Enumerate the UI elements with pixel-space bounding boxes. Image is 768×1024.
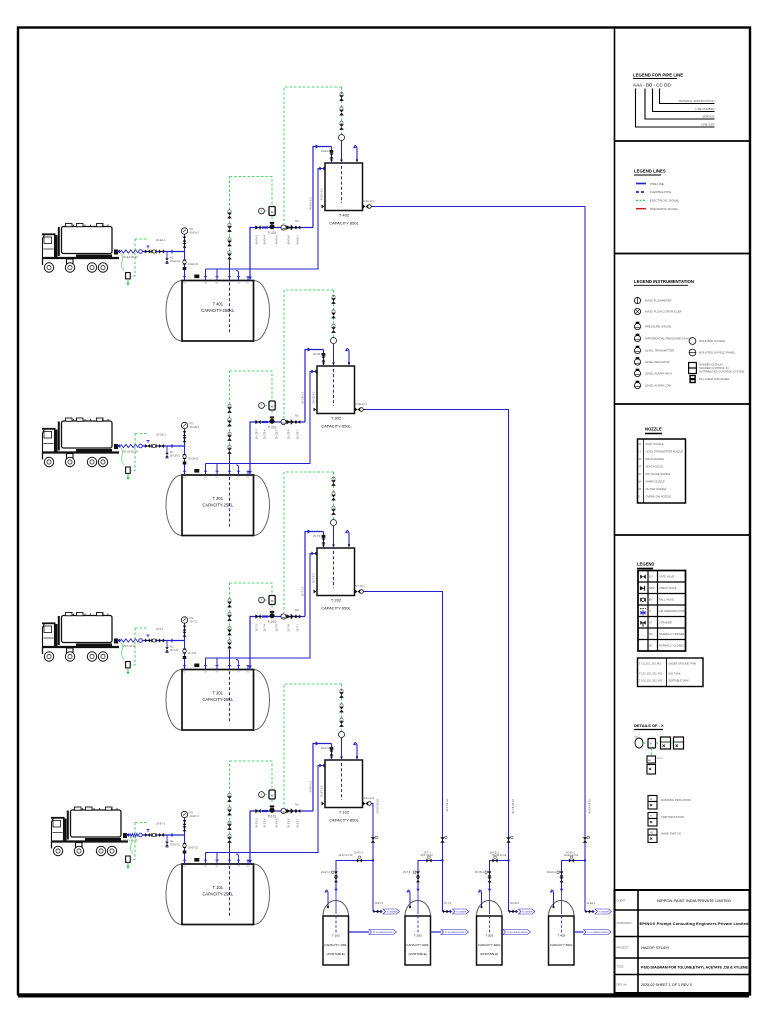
- svg-text:20-EY-6: 20-EY-6: [287, 818, 291, 828]
- svg-text:TO FLUSHING MIXING: TO FLUSHING MIXING: [373, 932, 395, 934]
- indication symbols: [648, 796, 691, 843]
- svg-text:CLIENT: CLIENT: [617, 900, 626, 903]
- svg-text:40-EA-4: 40-EA-4: [587, 902, 596, 905]
- svg-text:GV: GV: [649, 576, 653, 579]
- svg-text:20-EY-01: 20-EY-01: [170, 844, 181, 847]
- svg-text:BALL VALVE: BALL VALVE: [659, 598, 674, 602]
- earthing connection (green) unit 4: [126, 823, 148, 870]
- svg-text:25-T-9 2: 25-T-9 2: [312, 573, 316, 583]
- tank numbering table: [638, 658, 704, 687]
- svg-text:DIFFERENTIAL PRESSURE GAUGE: DIFFERENTIAL PRESSURE GAUGE: [645, 337, 692, 341]
- flexible hose from truck (40-EA-00): [117, 250, 142, 259]
- svg-text:T 203: T 203: [414, 934, 422, 938]
- portable tank T 103: [323, 890, 349, 965]
- svg-text:MASS FLOW CONTROLLER: MASS FLOW CONTROLLER: [645, 310, 682, 314]
- svg-text:MOUNTED IN FIELD PANEL: MOUNTED IN FIELD PANEL: [699, 351, 736, 355]
- svg-text:CAPACITY-250KL: CAPACITY-250KL: [201, 308, 235, 313]
- nozzle table section: [638, 427, 686, 504]
- svg-text:20-EY-2: 20-EY-2: [190, 814, 200, 818]
- svg-text:40-EA-3: 40-EA-3: [255, 234, 259, 244]
- svg-text:30-CB-9 2: 30-CB-9 2: [312, 391, 316, 403]
- svg-text:DISTRIBUTED CONTROL SYSTEM: DISTRIBUTED CONTROL SYSTEM: [699, 370, 745, 374]
- earthing connection (green) unit 3: [121, 628, 148, 675]
- electrical signal to flowmeter (green) unit 2: [284, 290, 334, 419]
- svg-text:O: O: [638, 495, 640, 498]
- svg-text:40-EA-4: 40-EA-4: [547, 871, 557, 874]
- tanker truck unit 4: [51, 807, 128, 856]
- svg-text:25-T-1: 25-T-1: [424, 852, 432, 855]
- svg-text:30-CB-5: 30-CB-5: [275, 429, 279, 439]
- svg-text:CAPACITY-25KL: CAPACITY-25KL: [202, 503, 233, 508]
- svg-text:P-201: P-201: [268, 620, 277, 624]
- svg-text:20-EY-5 2: 20-EY-5 2: [309, 780, 313, 792]
- flexible hose from truck (30-CB-00): [117, 444, 142, 453]
- svg-text:30-CB-6: 30-CB-6: [287, 429, 291, 439]
- svg-text:25-T-6 1: 25-T-6 1: [313, 535, 323, 538]
- svg-text:TO MIXER: TO MIXER: [386, 912, 397, 914]
- svg-text:MATERIAL SPECIFICATION: MATERIAL SPECIFICATION: [679, 99, 715, 103]
- svg-text:DAY TANK: DAY TANK: [669, 673, 681, 676]
- svg-text:TO MIXER: TO MIXER: [598, 912, 609, 914]
- svg-text:T 103, 203, 303, 403: T 103, 203, 303, 403: [639, 680, 663, 683]
- svg-text:30-CB-2: 30-CB-2: [190, 425, 200, 429]
- svg-text:RI: RI: [650, 799, 653, 801]
- vent valve column above T 202: [331, 472, 337, 545]
- svg-text:25-T-00 00: 25-T-00 00: [123, 644, 136, 648]
- svg-text:PROJECT: PROJECT: [617, 947, 629, 950]
- pump P-201 transfer line: [248, 609, 305, 670]
- svg-text:CAPACITY-600L: CAPACITY-600L: [478, 943, 501, 947]
- svg-text:2025-02 SHEET 1 OF 1 REV 0: 2025-02 SHEET 1 OF 1 REV 0: [641, 983, 692, 987]
- svg-text:T 101,201, 301, 401: T 101,201, 301, 401: [639, 663, 662, 666]
- level interlock signal and instruments unit 4: [230, 761, 276, 804]
- day tank T 202: [317, 531, 355, 611]
- svg-text:30-CB-4: 30-CB-4: [263, 429, 267, 439]
- svg-text:20-EY-00 00: 20-EY-00 00: [123, 839, 138, 843]
- svg-text:NC: NC: [649, 645, 653, 648]
- svg-text:PG: PG: [190, 616, 194, 620]
- inlet drop to tank N1 nozzle unit 2: [183, 446, 199, 475]
- svg-text:RUNNING INDICATION: RUNNING INDICATION: [661, 798, 691, 802]
- underground tank T 301: [166, 465, 270, 536]
- LT isolation valve column above T 101: [227, 761, 232, 860]
- svg-text:40-EA-1: 40-EA-1: [566, 852, 576, 855]
- details of X diagram: [634, 723, 684, 774]
- svg-text:25-T-7: 25-T-7: [296, 623, 300, 631]
- svg-text:NIPPON PAINT INDIA PRIVATE LIM: NIPPON PAINT INDIA PRIVATE LIMITED: [657, 898, 731, 903]
- svg-text:30-CB-7: 30-CB-7: [296, 429, 300, 439]
- svg-text:20-EY-09 A2: 20-EY-09 A2: [376, 798, 380, 813]
- svg-text:PLC FIELD AND PANEL: PLC FIELD AND PANEL: [699, 377, 730, 381]
- portable tank T 303: [477, 890, 503, 965]
- flexible hose from truck (20-EY-00): [123, 833, 142, 842]
- svg-text:NORMALLY CLOSED: NORMALLY CLOSED: [659, 644, 684, 648]
- svg-text:LEVEL TRANSMITTER NOZZLE: LEVEL TRANSMITTER NOZZLE: [646, 449, 684, 453]
- svg-text:NO: NO: [295, 415, 299, 418]
- svg-text:P-401: P-401: [268, 231, 277, 235]
- svg-text:LEVEL INDICATOR: LEVEL INDICATOR: [645, 360, 670, 364]
- mass flowmeter on pump line unit 3: [281, 614, 286, 619]
- svg-text:TI: TI: [650, 816, 652, 818]
- svg-text:AAA - BB - CC DD: AAA - BB - CC DD: [633, 83, 671, 88]
- svg-text:40-EA-6 1: 40-EA-6 1: [321, 150, 333, 153]
- svg-text:30-CB-1: 30-CB-1: [156, 433, 166, 437]
- svg-text:TO MIXER: TO MIXER: [522, 912, 533, 914]
- svg-text:OUTLET NOZZLE: OUTLET NOZZLE: [646, 487, 667, 491]
- svg-text:NRV: NRV: [649, 587, 655, 590]
- svg-text:LEVEL ALARM LOW: LEVEL ALARM LOW: [645, 384, 671, 388]
- legend for pipe line section: [633, 73, 715, 128]
- svg-text:SERVICE: SERVICE: [702, 115, 714, 119]
- legend instrumentation section: [634, 279, 745, 389]
- TO MIXER outlet from trunk T 103: [372, 859, 400, 914]
- pump P-301 transfer line: [248, 415, 305, 476]
- svg-text:40-EA-4: 40-EA-4: [263, 234, 267, 244]
- svg-text:T 403: T 403: [557, 934, 565, 938]
- svg-text:HAND SWITCH: HAND SWITCH: [661, 832, 681, 836]
- svg-text:25-T-02: 25-T-02: [188, 652, 197, 655]
- svg-text:T 202: T 202: [331, 598, 342, 603]
- svg-text:FLEXIBLE PIPE: FLEXIBLE PIPE: [650, 190, 671, 194]
- svg-text:STOP: STOP: [657, 758, 663, 760]
- svg-text:40-EA-1: 40-EA-1: [156, 238, 166, 242]
- svg-text:40-EA-5: 40-EA-5: [275, 234, 279, 244]
- inlet drop to tank N1 nozzle unit 1: [183, 252, 199, 281]
- truck unloading pipe with valves unit 3: [143, 627, 185, 653]
- svg-text:CAPACITY-950L: CAPACITY-950L: [321, 606, 351, 611]
- svg-text:LINE NUMBER: LINE NUMBER: [695, 107, 714, 111]
- svg-text:25-T-5 2: 25-T-5 2: [301, 586, 305, 596]
- svg-text:CAPACITY-25KL: CAPACITY-25KL: [202, 892, 233, 897]
- svg-text:CAPACITY-25KL: CAPACITY-25KL: [202, 697, 233, 702]
- svg-text:BV: BV: [649, 599, 653, 602]
- portable tank T 403: [549, 890, 575, 965]
- day tank outlet to trunk unit 1: [322, 200, 586, 861]
- svg-text:40-EA-9 2: 40-EA-9 2: [320, 188, 324, 200]
- svg-text:30-CB-3: 30-CB-3: [255, 429, 259, 439]
- svg-text:20-EY-4: 20-EY-4: [263, 818, 267, 828]
- svg-text:VENT NOZZLE: VENT NOZZLE: [646, 464, 664, 468]
- fill branch to T 303: [475, 798, 516, 914]
- svg-text:DRG. No: DRG. No: [617, 984, 628, 987]
- flexible hose from truck (25-T-00): [117, 639, 142, 648]
- pump P-101 transfer line: [248, 804, 313, 865]
- svg-text:40-EA-10 1: 40-EA-10 1: [362, 200, 375, 203]
- svg-text:UNDER GROUND TANK: UNDER GROUND TANK: [669, 663, 697, 666]
- pressure gauge riser unit 3: [181, 616, 197, 641]
- svg-text:25-T-10 1: 25-T-10 1: [354, 585, 365, 588]
- tanker truck unit 3: [42, 613, 119, 662]
- pressure gauge riser unit 1: [181, 227, 199, 252]
- svg-text:CAPACITY-100L: CAPACITY-100L: [324, 943, 347, 947]
- svg-text:25-T-4: 25-T-4: [444, 902, 452, 905]
- svg-text:30-CB-1: 30-CB-1: [490, 852, 500, 855]
- svg-text:30-CB-4: 30-CB-4: [475, 871, 485, 874]
- svg-text:T 103: T 103: [332, 934, 340, 938]
- mass flowmeter on pump line unit 1: [281, 225, 286, 230]
- LT isolation valve column above T 201: [227, 583, 232, 666]
- TO MIXER outlet from trunk T 303: [507, 859, 535, 914]
- inlet drop to tank N1 nozzle unit 4: [183, 835, 199, 864]
- pump P-401 transfer line: [248, 220, 313, 281]
- valve legend table: [637, 562, 686, 652]
- day tank T 402: [325, 146, 363, 226]
- svg-text:25-T-09 A2: 25-T-09 A2: [445, 798, 449, 811]
- day tank T 102: [325, 743, 363, 823]
- svg-text:40-EA-6: 40-EA-6: [287, 234, 291, 244]
- svg-text:20-EY-4: 20-EY-4: [375, 902, 384, 905]
- svg-text:20-EY-10 1: 20-EY-10 1: [362, 797, 375, 800]
- svg-text:DRAIN NOZZLE: DRAIN NOZZLE: [646, 457, 665, 461]
- svg-text:SPARE NOZZLE: SPARE NOZZLE: [646, 479, 666, 483]
- earthing connection (green) unit 1: [121, 239, 148, 286]
- tanker truck unit 1: [42, 224, 119, 273]
- fill branch to T 103: [321, 798, 380, 914]
- return line T 202 to T 201: [206, 552, 317, 666]
- svg-text:NORMALLY OPENED: NORMALLY OPENED: [659, 632, 684, 636]
- legend panel divider: [615, 28, 751, 995]
- svg-text:STRAINER: STRAINER: [659, 621, 672, 625]
- pressure gauge riser unit 4: [181, 811, 199, 836]
- svg-text:GATE VALVE: GATE VALVE: [659, 575, 675, 579]
- svg-text:30-CB-6 1: 30-CB-6 1: [313, 353, 325, 356]
- svg-text:CAPACITY 850L: CAPACITY 850L: [329, 221, 359, 226]
- svg-text:TO FLUSHING MIXING: TO FLUSHING MIXING: [507, 932, 529, 934]
- svg-text:T 401: T 401: [213, 302, 224, 307]
- svg-text:T 102: T 102: [339, 810, 350, 815]
- fill branch to T 403: [547, 798, 592, 914]
- svg-text:VT: VT: [638, 465, 642, 468]
- electrical signal to flowmeter (green) unit 1: [284, 87, 342, 224]
- transfer riser to day tank T 202: [301, 529, 326, 616]
- vent valve column above T 302: [331, 290, 337, 363]
- svg-text:40-EA-5 2: 40-EA-5 2: [309, 197, 313, 209]
- svg-text:T 301: T 301: [213, 496, 224, 501]
- svg-text:20-EY-5: 20-EY-5: [275, 818, 279, 828]
- svg-text:T 102, 202, 302, 402: T 102, 202, 302, 402: [639, 673, 663, 676]
- svg-text:NO: NO: [295, 220, 299, 223]
- svg-text:P-101: P-101: [268, 815, 277, 819]
- inlet drop to tank N1 nozzle unit 3: [183, 641, 197, 670]
- svg-text:(PORTABLE): (PORTABLE): [327, 952, 345, 956]
- svg-text:NO: NO: [295, 804, 299, 807]
- svg-text:PG: PG: [190, 227, 194, 231]
- mass flowmeter on pump line unit 4: [281, 808, 286, 813]
- return line T 302 to T 301: [206, 370, 317, 472]
- electrical signal to flowmeter (green) unit 3: [284, 472, 334, 613]
- mass flowmeter on pump line unit 2: [281, 419, 286, 424]
- svg-text:LEGEND FOR PIPE LINE: LEGEND FOR PIPE LINE: [633, 73, 683, 78]
- title block: [615, 890, 750, 993]
- svg-text:25-T-4: 25-T-4: [263, 623, 267, 631]
- vent valve column above T 402: [339, 87, 345, 160]
- svg-text:CAPACITY-950L: CAPACITY-950L: [321, 424, 351, 429]
- transfer riser to day tank T 302: [301, 347, 326, 422]
- svg-text:30-CB-00 00: 30-CB-00 00: [123, 450, 138, 454]
- svg-text:20-EY-6 1: 20-EY-6 1: [321, 747, 333, 750]
- electrical signal to flowmeter (green) unit 4: [284, 684, 342, 808]
- flushing outlet from T 403: [574, 930, 611, 935]
- svg-text:20-EY-10 A2: 20-EY-10 A2: [339, 854, 354, 857]
- svg-text:30-CB-10 1: 30-CB-10 1: [354, 403, 367, 406]
- transfer riser to day tank T 402: [309, 144, 334, 227]
- underground tank T 401: [166, 271, 270, 342]
- level interlock signal and instruments unit 2: [230, 371, 276, 415]
- day tank outlet to trunk unit 4: [322, 797, 376, 861]
- svg-text:LEGEND INSTRUMENTATION: LEGEND INSTRUMENTATION: [634, 279, 694, 284]
- svg-text:30-CB-5 2: 30-CB-5 2: [301, 391, 305, 403]
- svg-text:CAPACITY-500L: CAPACITY-500L: [550, 943, 573, 947]
- underground tank T 201: [166, 660, 270, 731]
- svg-text:TRIP INDICATION: TRIP INDICATION: [661, 815, 684, 819]
- vent valve column above T 102: [339, 684, 345, 757]
- svg-text:25-T-2: 25-T-2: [190, 620, 198, 624]
- svg-text:TO FLUSHING MIXING: TO FLUSHING MIXING: [587, 932, 609, 934]
- return line T 102 to T 101: [206, 764, 325, 861]
- tanker truck unit 2: [42, 418, 119, 467]
- svg-text:40-EA-02: 40-EA-02: [188, 263, 199, 266]
- svg-text:CAPACITY 850L: CAPACITY 850L: [329, 818, 359, 823]
- svg-text:30-CB-01: 30-CB-01: [170, 455, 181, 458]
- svg-text:25-T-4: 25-T-4: [403, 871, 411, 874]
- svg-text:20-EY-1: 20-EY-1: [156, 822, 166, 826]
- day tank outlet to trunk unit 3: [314, 585, 443, 861]
- svg-text:25-T-1: 25-T-1: [156, 627, 164, 631]
- svg-text:20-EY-7: 20-EY-7: [296, 818, 300, 828]
- svg-text:M: M: [650, 743, 652, 746]
- svg-text:LEVEL ALARM HIGH: LEVEL ALARM HIGH: [645, 372, 672, 376]
- svg-text:NO: NO: [649, 633, 653, 636]
- svg-text:EPINOX Prompt Consulting Engin: EPINOX Prompt Consulting Engineers Priva…: [640, 921, 750, 926]
- svg-text:25-T-5: 25-T-5: [275, 623, 279, 631]
- svg-text:LEGEND: LEGEND: [637, 562, 654, 567]
- svg-text:HS: HS: [650, 832, 654, 834]
- svg-text:PNEUMATIC SIGNAL: PNEUMATIC SIGNAL: [650, 207, 679, 211]
- svg-text:T 402: T 402: [339, 213, 350, 218]
- svg-text:LEGEND LINES: LEGEND LINES: [634, 169, 666, 174]
- svg-text:LINE SIZE: LINE SIZE: [701, 123, 714, 127]
- level interlock signal and instruments unit 3: [230, 583, 276, 610]
- svg-text:20-EY-3: 20-EY-3: [255, 818, 259, 828]
- transfer riser to day tank T 102: [309, 741, 334, 811]
- svg-text:NO: NO: [295, 609, 299, 612]
- svg-text:T 302: T 302: [331, 416, 342, 421]
- svg-text:(PORTABLE): (PORTABLE): [480, 952, 498, 956]
- svg-text:25-T-6: 25-T-6: [287, 623, 291, 631]
- svg-text:NOZZLE: NOZZLE: [645, 427, 662, 432]
- svg-text:PG: PG: [190, 422, 194, 426]
- svg-text:TO FLUSHING MIXING: TO FLUSHING MIXING: [445, 932, 467, 934]
- svg-text:DIP GAUGE NOZZLE: DIP GAUGE NOZZLE: [646, 472, 671, 476]
- flushing outlet from T 103: [349, 930, 397, 935]
- svg-text:40-EA-01: 40-EA-01: [170, 260, 181, 263]
- svg-text:CONSULTANT: CONSULTANT: [617, 922, 633, 925]
- svg-text:PIPE LINE: PIPE LINE: [650, 182, 664, 186]
- earthing connection (green) unit 2: [121, 434, 148, 481]
- svg-text:25-T-3: 25-T-3: [255, 623, 259, 631]
- TO MIXER outlet from trunk T 403: [584, 859, 612, 914]
- TO MIXER outlet from trunk T 203: [441, 859, 469, 914]
- svg-text:LEVEL TRANSMITTER: LEVEL TRANSMITTER: [645, 349, 674, 353]
- svg-text:TO MIXER: TO MIXER: [456, 912, 467, 914]
- truck unloading pipe with valves unit 1: [143, 238, 185, 264]
- svg-text:MOUNTED IN FIELD: MOUNTED IN FIELD: [699, 339, 725, 343]
- truck unloading pipe with valves unit 4: [143, 822, 185, 848]
- svg-text:T 303: T 303: [485, 934, 493, 938]
- svg-text:20-EY-4: 20-EY-4: [321, 871, 331, 874]
- svg-text:CAPACITY-600L: CAPACITY-600L: [406, 943, 429, 947]
- LT isolation valve column above T 401: [227, 177, 232, 277]
- underground tank T 101: [166, 854, 270, 925]
- svg-text:20-EY-02: 20-EY-02: [188, 847, 199, 850]
- day tank T 302: [317, 349, 355, 429]
- LT isolation valve column above T 301: [227, 371, 232, 471]
- return line T 402 to T 401: [206, 167, 325, 277]
- flushing outlet from T 303: [502, 930, 531, 935]
- legend lines section: [634, 169, 680, 211]
- svg-text:T 101: T 101: [213, 885, 224, 890]
- svg-text:30-CB-4: 30-CB-4: [510, 902, 520, 905]
- svg-text:30-CB-09 A2: 30-CB-09 A2: [511, 798, 515, 813]
- svg-text:TITLE: TITLE: [617, 966, 624, 969]
- svg-text:25-T-01: 25-T-01: [170, 649, 179, 652]
- svg-text:PORTABLE TANK: PORTABLE TANK: [669, 680, 690, 683]
- svg-text:MASS FLOWMETER: MASS FLOWMETER: [645, 299, 672, 303]
- svg-text:40-EA-09 A2: 40-EA-09 A2: [588, 798, 592, 813]
- flushing outlet from T 203: [431, 930, 469, 935]
- svg-text:PG: PG: [190, 811, 194, 815]
- portable tank T 203: [405, 890, 431, 965]
- svg-text:OVERFLOW NOZZLE: OVERFLOW NOZZLE: [646, 494, 672, 498]
- svg-text:AIR OPERATED PUMP: AIR OPERATED PUMP: [659, 609, 686, 613]
- level interlock signal and instruments unit 1: [230, 177, 276, 221]
- svg-text:(PORTABLE): (PORTABLE): [409, 952, 427, 956]
- svg-text:PRESSURE GAUGE: PRESSURE GAUGE: [645, 325, 671, 329]
- svg-text:INLET NOZZLE: INLET NOZZLE: [646, 442, 664, 446]
- svg-text:40-EA-2: 40-EA-2: [190, 231, 200, 235]
- svg-text:HAZOP STUDY: HAZOP STUDY: [641, 945, 670, 950]
- svg-text:40-EA-00 00: 40-EA-00 00: [123, 255, 138, 259]
- svg-text:ELECTRICAL SIGNAL: ELECTRICAL SIGNAL: [650, 199, 680, 203]
- svg-text:P-301: P-301: [268, 426, 277, 430]
- truck unloading pipe with valves unit 2: [143, 433, 185, 459]
- svg-text:40-EA-7: 40-EA-7: [296, 234, 300, 244]
- svg-text:T 201: T 201: [213, 691, 224, 696]
- pressure gauge riser unit 2: [181, 422, 199, 447]
- svg-text:20-EY-1: 20-EY-1: [354, 852, 364, 855]
- day tank outlet to trunk unit 2: [314, 403, 509, 861]
- svg-text:20-EY-9 2: 20-EY-9 2: [320, 785, 324, 797]
- svg-text:DETAILS OF - X: DETAILS OF - X: [634, 723, 664, 728]
- fill branch to T 203: [403, 798, 449, 914]
- svg-text:P&ID DIAGRAM FOR TOLUNE,ETHYL: P&ID DIAGRAM FOR TOLUNE,ETHYL ACETATE ,C…: [641, 966, 749, 970]
- svg-text:30-CB-02: 30-CB-02: [188, 458, 199, 461]
- svg-text:ST: ST: [649, 622, 653, 625]
- svg-text:CHECK VALVE: CHECK VALVE: [659, 586, 677, 590]
